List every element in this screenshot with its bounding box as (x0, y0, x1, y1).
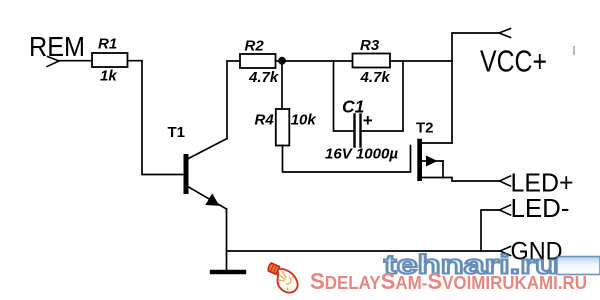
svg-text:4.7k: 4.7k (360, 69, 391, 86)
wire T1 collector to R2 (227, 61, 240, 139)
resistor R4 (276, 109, 290, 146)
svg-text:R2: R2 (245, 38, 265, 55)
node junction (278, 57, 286, 65)
svg-text:T1: T1 (168, 124, 186, 141)
svg-text:R4: R4 (255, 112, 275, 129)
connector REM (47, 57, 59, 67)
svg-text:+: + (363, 111, 373, 130)
resistor R3 (353, 54, 391, 68)
wire LED- to ground rail (481, 210, 500, 251)
transistor T1 (168, 124, 228, 209)
transistor T2 (416, 119, 452, 181)
wire VCC rail vertical (452, 33, 499, 143)
svg-text:T2: T2 (416, 119, 434, 136)
svg-text:R3: R3 (360, 37, 380, 54)
wire R4 to T2 gate (283, 146, 411, 173)
svg-text:LED-: LED- (511, 193, 570, 223)
resistor R2 (240, 54, 276, 68)
capacitor C1 (325, 61, 403, 163)
wire R3 to VCC rail (390, 60, 452, 62)
svg-text:VCC+: VCC+ (480, 44, 547, 79)
svg-text:1k: 1k (100, 68, 117, 85)
svg-text:16V 1000µ: 16V 1000µ (325, 146, 398, 163)
ground (212, 270, 244, 274)
wire T1 emitter to ground (226, 209, 228, 270)
watermark bulb icon (262, 261, 302, 297)
svg-text:REM: REM (29, 31, 85, 62)
wire R1 to T1 base (128, 61, 184, 175)
connector LED+ (500, 176, 511, 186)
wire T2 source to LED+ (443, 178, 500, 182)
svg-text:10k: 10k (291, 112, 317, 129)
connector VCC (499, 29, 511, 38)
watermark tehnari.ru (384, 250, 600, 280)
resistor R1 (92, 53, 128, 67)
connector GND (500, 247, 511, 256)
svg-text:C1: C1 (342, 97, 364, 117)
connector LED- (500, 205, 511, 215)
svg-text:R1: R1 (98, 36, 117, 53)
wire R2 to node (276, 60, 283, 62)
wire node to R4 (281, 61, 283, 109)
wire node to R3 (282, 60, 353, 62)
svg-text:4.7k: 4.7k (248, 69, 279, 86)
wire REM to R1 (59, 60, 92, 62)
wire ground rail (227, 250, 501, 252)
